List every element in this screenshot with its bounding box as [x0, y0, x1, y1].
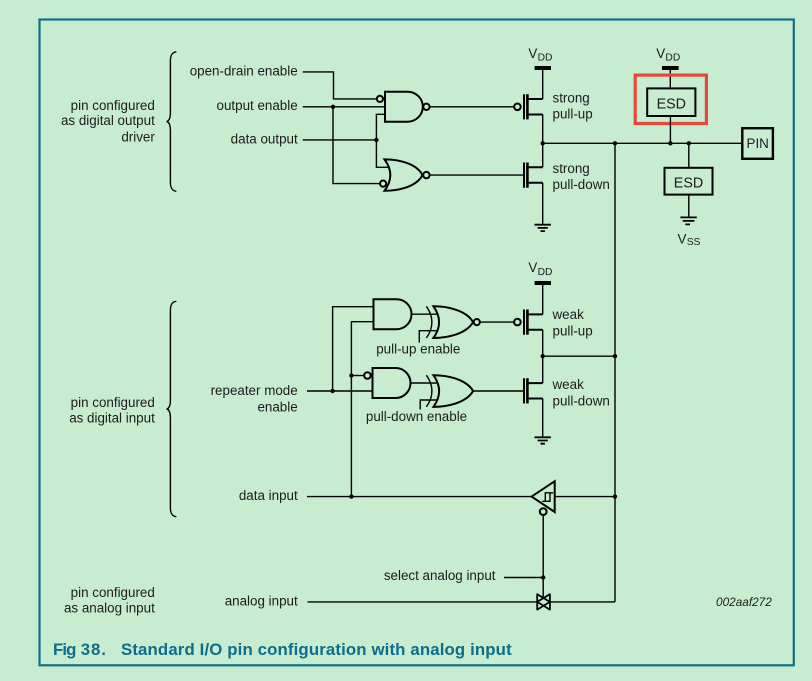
svg-text:PIN: PIN: [747, 136, 769, 151]
NOR gate: [385, 159, 423, 190]
svg-text:DD: DD: [538, 267, 553, 278]
svg-text:enable: enable: [257, 399, 297, 414]
wire: AND1 output into XOR1: [412, 313, 437, 315]
label: open-drain enable: [190, 63, 298, 78]
svg-text:data output: data output: [231, 131, 298, 146]
svg-text:002aaf272: 002aaf272: [716, 595, 772, 609]
transistor strong pull-down NMOS: [524, 163, 543, 188]
wire: pin net vertical: [614, 143, 616, 602]
bubble: AND2 inverted input: [364, 372, 371, 379]
wire: input buffer input from pin net: [555, 496, 615, 498]
svg-text:38.: 38.: [81, 640, 107, 659]
bubble: input buffer enable: [540, 508, 547, 515]
junction: repeater tee: [330, 389, 334, 393]
svg-text:driver: driver: [121, 129, 155, 144]
svg-text:weak: weak: [552, 377, 585, 392]
wire: strong pull-down drain to output node: [542, 143, 544, 167]
wire: data output to junction: [303, 139, 377, 141]
svg-text:pin configured: pin configured: [71, 585, 155, 600]
ESD cell lower: [665, 168, 713, 195]
svg-text:V: V: [528, 260, 537, 275]
wire: weak node to pin net: [543, 355, 615, 357]
transistor weak pull-down NMOS: [524, 378, 543, 403]
svg-text:analog input: analog input: [225, 594, 298, 609]
wire: weak pull-up source to weak node: [542, 330, 544, 356]
NAND gate: [385, 92, 423, 122]
svg-text:as digital input: as digital input: [69, 410, 155, 425]
brace digital input section: [167, 301, 177, 516]
junction: weak node: [541, 354, 545, 358]
bubble: strong pull-up gate: [514, 104, 521, 111]
power VDD bar (ESD): [662, 66, 679, 70]
junction: AND2 inverted input tee: [349, 373, 353, 377]
power VDD label (weak pull-up): [528, 260, 552, 278]
wire: output enable to NAND input: [303, 106, 385, 108]
wire: output node to PIN: [543, 142, 741, 144]
junction: strong output node: [541, 141, 545, 145]
bubble: NOR output: [423, 172, 429, 178]
analog switch (transmission gate): [537, 594, 550, 609]
label: pull-up enable: [376, 342, 460, 357]
svg-text:SS: SS: [687, 237, 701, 248]
label: pin configured as digital input: [69, 395, 155, 426]
junction: weak node tee: [613, 354, 617, 358]
wire: data output branch up to NAND input: [376, 114, 385, 140]
label: weak pull-up: [552, 307, 593, 338]
label: pin configured as digital output driver: [61, 98, 155, 144]
junction: data input buffer tee: [613, 494, 617, 498]
junction: ESD bottom tee: [687, 141, 691, 145]
label: repeater mode enable: [211, 383, 298, 414]
AND gate lower: [373, 368, 411, 398]
svg-text:V: V: [678, 231, 687, 246]
svg-text:V: V: [656, 46, 665, 61]
label: pull-down enable: [366, 409, 467, 424]
power VDD bar (strong pull-up): [535, 66, 551, 70]
svg-text:DD: DD: [665, 53, 680, 64]
label: weak pull-down: [552, 377, 610, 409]
power VDD label (strong pull-up): [528, 46, 552, 64]
label: drawing id 002aaf272: [716, 595, 772, 609]
ESD cell upper: [647, 88, 695, 116]
svg-text:pin configured: pin configured: [71, 98, 155, 113]
XOR gate upper: [433, 306, 473, 338]
wire: ESD2 to VSS ground: [688, 195, 690, 218]
svg-text:as analog input: as analog input: [64, 600, 155, 615]
svg-text:DD: DD: [538, 53, 553, 64]
junction: pin net vertical tee: [613, 141, 617, 145]
wire: data output branch down to NOR input: [376, 140, 390, 167]
svg-text:data input: data input: [239, 488, 298, 503]
input buffer triangle (Schmitt trigger): [532, 481, 555, 512]
wire: output enable branch down to NOR inverted input: [333, 107, 380, 184]
svg-text:pull-down enable: pull-down enable: [366, 409, 467, 424]
wire: buffer enable down to analog switch: [542, 515, 544, 598]
wire: feedback vertical AND1 input to data input: [351, 322, 373, 497]
svg-text:pin configured: pin configured: [71, 395, 155, 410]
power VDD bar (weak pull-up): [535, 281, 551, 285]
wire: VDD to ESD1: [669, 70, 671, 87]
svg-text:V: V: [528, 46, 537, 61]
power VDD label (ESD): [656, 46, 680, 64]
wire: open-drain enable to NAND inverted input: [303, 72, 377, 99]
svg-text:Standard I/O pin configuration: Standard I/O pin configuration with anal…: [121, 640, 512, 659]
wire: pull-down enable to XOR2: [420, 400, 437, 410]
svg-text:pull-up: pull-up: [553, 106, 593, 121]
ground (weak pull-down): [535, 437, 551, 443]
PIN box: [742, 128, 773, 159]
red highlight box: [635, 75, 706, 123]
wire: weak pull-down source to ground: [542, 399, 544, 438]
transistor strong pull-up PMOS: [524, 94, 543, 119]
bubble: NOR inverted input: [380, 181, 386, 187]
wire: repeater branch up to AND1 input: [333, 307, 374, 391]
wire: XOR2 output to weak pull-down gate: [473, 390, 523, 392]
label: pin configured as analog input: [64, 585, 155, 616]
wire: AND2 output into XOR2: [411, 382, 437, 384]
ground (strong pull-down): [535, 225, 551, 231]
wire: strong pull-down source to ground: [542, 183, 544, 225]
wire: NOR output to strong pull-down gate: [430, 174, 524, 176]
label VSS: [678, 231, 701, 248]
wire: VDD to weak pull-up drain: [542, 285, 544, 314]
junction: output enable tee: [331, 105, 335, 109]
junction: data input tee: [349, 494, 353, 498]
junction: select analog tee: [541, 575, 545, 579]
wire: data input line to input buffer output: [307, 496, 532, 498]
bubble: NAND inverted input: [377, 96, 383, 102]
label: select analog input: [384, 568, 496, 583]
svg-text:strong: strong: [553, 91, 590, 106]
label: analog input: [225, 594, 298, 609]
svg-text:open-drain enable: open-drain enable: [190, 63, 298, 78]
svg-text:weak: weak: [552, 307, 585, 322]
junction: data output tee: [374, 138, 378, 142]
svg-text:output enable: output enable: [217, 98, 298, 113]
wire: weak pull-down drain to weak node: [542, 356, 544, 383]
svg-text:Fig: Fig: [53, 640, 76, 659]
ground VSS: [680, 217, 696, 224]
XOR gate upper input arc: [426, 306, 432, 338]
wire: repeater mode enable to AND2 input: [307, 390, 373, 392]
svg-text:select analog input: select analog input: [384, 568, 496, 583]
junction: ESD top tee: [668, 141, 672, 145]
wire: pin rail to ESD2: [688, 143, 690, 168]
AND gate upper: [374, 299, 412, 329]
wire: ESD1 to pin rail: [669, 116, 671, 143]
label: data input: [239, 488, 298, 503]
label: output enable: [217, 98, 298, 113]
wire: analog input to switch: [308, 601, 537, 603]
hysteresis symbol: [542, 493, 553, 502]
svg-text:pull-down: pull-down: [553, 394, 610, 409]
brace digital output section: [167, 52, 177, 192]
wire: VDD to strong pull-up drain: [542, 70, 544, 99]
label: data output: [231, 131, 298, 146]
svg-text:strong: strong: [553, 161, 590, 176]
XOR gate lower input arc: [426, 375, 432, 407]
svg-text:as digital output: as digital output: [61, 113, 155, 128]
label: strong pull-down: [553, 161, 610, 192]
wire: pull-up enable to XOR1: [419, 331, 437, 343]
wire: select analog input: [504, 577, 543, 579]
svg-text:pull-down: pull-down: [553, 177, 610, 192]
wire: branch to AND2 inverted input bubble: [351, 375, 364, 377]
wire: strong pull-up source to output node: [542, 115, 544, 144]
svg-text:ESD: ESD: [657, 97, 686, 113]
svg-text:pull-up enable: pull-up enable: [376, 342, 460, 357]
wire: XOR1 output to weak pull-up gate: [480, 321, 514, 323]
caption Fig 38: [53, 640, 512, 659]
svg-text:ESD: ESD: [674, 176, 703, 192]
transistor weak pull-up PMOS: [524, 310, 543, 335]
XOR gate lower: [433, 375, 473, 407]
svg-text:repeater mode: repeater mode: [211, 383, 298, 398]
label: strong pull-up: [553, 91, 593, 122]
bubble: weak pull-up gate: [514, 319, 521, 326]
svg-text:pull-up: pull-up: [553, 323, 593, 338]
bubble: NAND output: [423, 104, 429, 110]
bubble: XOR1 output: [474, 319, 480, 325]
wire: analog switch to pin net: [550, 601, 615, 603]
wire: NAND output to strong pull-up gate: [430, 106, 514, 108]
